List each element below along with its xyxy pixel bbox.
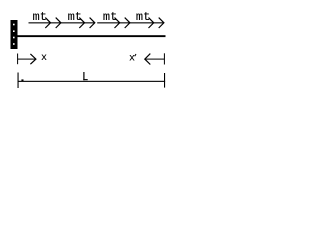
svg-text:x: x [129, 54, 135, 65]
svg-text:mt: mt [68, 10, 82, 24]
torque arrowhead chevron 3b [125, 18, 130, 28]
torque arrowhead chevron 2a [79, 18, 84, 28]
beam [18, 35, 166, 37]
torque arrowhead chevron 2b [90, 18, 95, 28]
svg-text:mt: mt [33, 10, 47, 24]
torque arrowhead chevron 4b [159, 18, 164, 28]
dimension x' arrowhead [145, 54, 151, 65]
dimension x arrowhead [30, 54, 36, 64]
fixed support wall [11, 20, 18, 49]
torque arrowhead chevron 3a [115, 18, 120, 28]
label L [83, 72, 87, 80]
svg-text:mt: mt [136, 10, 150, 24]
dimension x arrow shaft [18, 59, 36, 60]
svg-text:mt: mt [103, 10, 117, 24]
dimension L line bump [21, 79, 23, 81]
torque arrowhead chevron 1b [56, 18, 61, 28]
svg-text:x: x [41, 53, 47, 64]
dimension L left tick [18, 73, 19, 89]
torque arrowhead chevron 4a [149, 18, 154, 28]
dimension L line [18, 81, 166, 82]
dimension L right tick [164, 73, 165, 88]
distributed torque load line segment 2 [97, 22, 164, 23]
dimension x left tick [17, 54, 18, 65]
distributed torque load line segment 1 [29, 22, 95, 23]
label x' prime mark [135, 54, 136, 56]
dimension x' arrow shaft [145, 59, 165, 60]
dimension x' right tick [164, 53, 165, 64]
torque arrowhead chevron 1a [45, 18, 50, 28]
